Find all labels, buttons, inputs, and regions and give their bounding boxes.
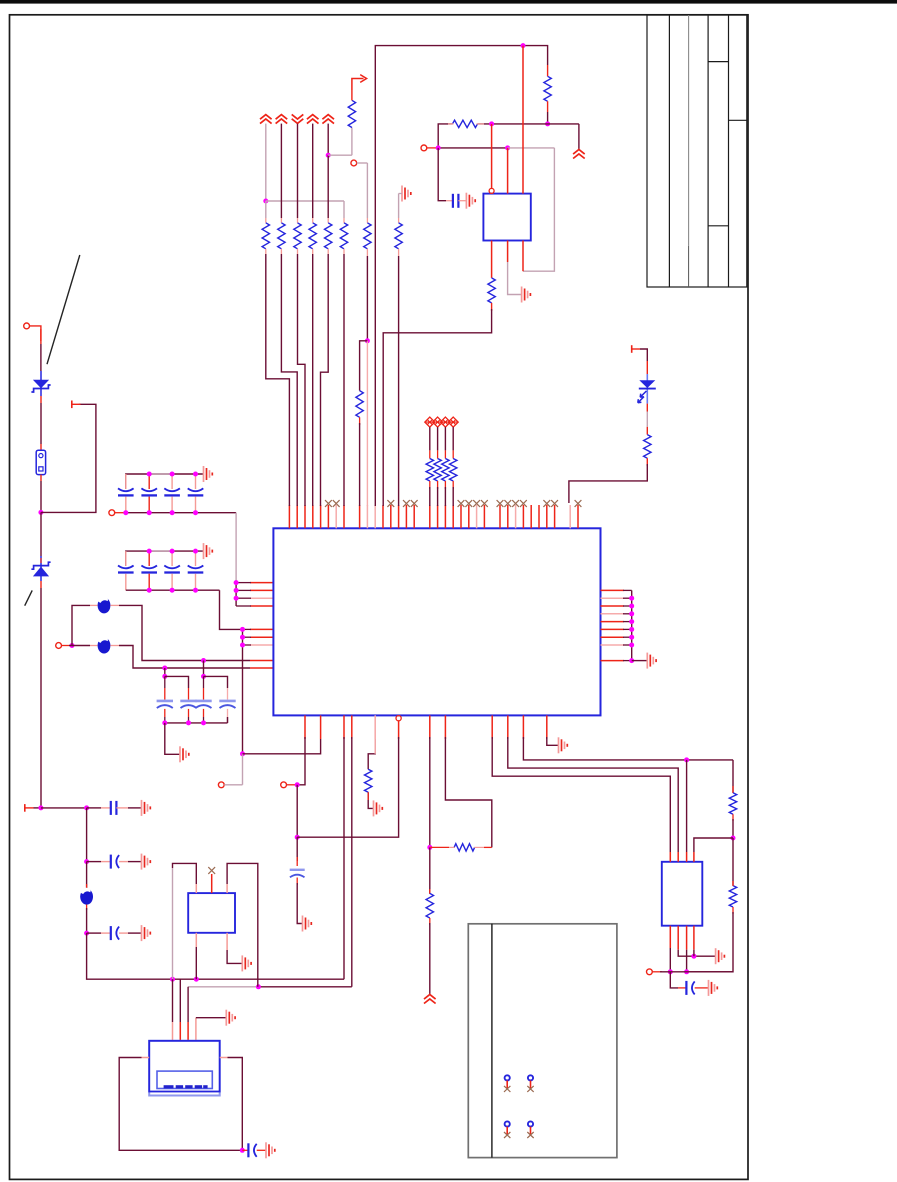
resistor R1 — [262, 223, 269, 249]
junction — [326, 153, 331, 158]
wire horizontal 986.8 — [258, 986, 351, 988]
wire rail long — [40, 588, 42, 808]
ground — [521, 287, 523, 303]
ground — [465, 193, 467, 209]
junction — [147, 510, 152, 515]
pin T1 — [71, 401, 73, 409]
capacitor C10 — [685, 981, 687, 995]
wire — [578, 124, 580, 150]
junction — [234, 580, 239, 585]
stub — [351, 90, 353, 100]
junction — [545, 121, 550, 126]
stub — [646, 361, 648, 374]
wire gray — [357, 162, 368, 164]
junction — [193, 588, 198, 593]
IC left pin — [250, 660, 273, 662]
resistor R13 — [644, 435, 651, 459]
power chevron 2 — [276, 115, 288, 124]
wire — [547, 112, 549, 124]
wire gray chevron1 — [265, 124, 267, 201]
wire stub — [40, 444, 42, 450]
top page edge bar — [0, 0, 897, 4]
cap stub — [164, 709, 166, 717]
no-connect X — [387, 500, 394, 507]
junction — [691, 954, 696, 959]
wire mid horizontal — [438, 124, 452, 148]
wire gray to IC pins A — [235, 513, 237, 583]
wire stub — [119, 932, 128, 934]
no-connect X — [465, 500, 472, 507]
U4 top pin — [669, 852, 671, 862]
no-connect X — [551, 500, 558, 507]
stub — [732, 907, 734, 914]
junction — [365, 338, 370, 343]
title block — [647, 15, 747, 287]
no-connect X — [473, 500, 480, 507]
junction — [84, 805, 89, 810]
resistor R10 — [356, 391, 363, 418]
wire loop — [119, 1058, 242, 1151]
LED D3 — [646, 374, 648, 404]
stub — [312, 218, 314, 223]
ground — [646, 653, 648, 669]
net flag diamond 3 — [440, 417, 450, 427]
wire to pin — [398, 256, 400, 506]
no-connect X — [208, 867, 215, 874]
capacitor C31 — [157, 700, 173, 703]
ferrite bead FB1 — [98, 597, 111, 613]
power chevron 4 — [307, 115, 319, 124]
junction — [505, 145, 510, 150]
resistor R20 — [426, 459, 433, 482]
IC U1 body — [273, 528, 600, 715]
stub — [296, 878, 298, 886]
junction — [263, 199, 268, 204]
capacitor bank 1 bus — [126, 474, 204, 489]
capacitor C5 — [110, 801, 112, 815]
wire stub — [40, 396, 42, 403]
stub — [452, 481, 454, 489]
U4 bottom pin 3 — [693, 926, 695, 950]
wire gray — [172, 868, 174, 979]
resistor R9 — [348, 100, 355, 127]
junction — [84, 859, 89, 864]
wire rail — [40, 481, 42, 512]
resistor R2 — [278, 223, 285, 249]
junction — [38, 805, 43, 810]
resistor R11 — [453, 120, 478, 127]
pin T2 — [24, 804, 26, 812]
wire port to rail — [30, 326, 41, 341]
port circle — [281, 782, 287, 788]
port circle — [351, 160, 357, 166]
junction — [240, 627, 245, 632]
resistor R14 — [488, 278, 495, 303]
stub — [265, 249, 267, 254]
wire IC pin k8 down — [351, 737, 353, 987]
junction — [629, 658, 634, 663]
wire — [640, 349, 647, 361]
power chevron — [424, 995, 436, 1004]
wire gray horizontal — [266, 200, 344, 202]
wire — [297, 737, 305, 785]
junction — [436, 145, 441, 150]
stub — [110, 604, 119, 606]
bank3 top bus seg1 — [165, 676, 189, 688]
junction — [123, 510, 128, 515]
stub — [646, 458, 648, 466]
ground — [225, 1010, 227, 1026]
wire chevron5 — [327, 124, 329, 156]
cap top stub — [171, 551, 173, 566]
cap bottom stub — [125, 574, 127, 591]
capacitor C24 — [188, 566, 204, 569]
wire R2 to pin — [281, 254, 297, 506]
no-connect X — [481, 500, 488, 507]
wire — [547, 737, 559, 745]
capacitor C12 — [141, 488, 157, 491]
cap top stub — [195, 474, 197, 489]
ferrite bead FB2 — [98, 638, 111, 654]
junction — [147, 588, 152, 593]
test pin symbol — [505, 1075, 510, 1080]
wire — [686, 760, 688, 852]
wire — [437, 427, 439, 450]
wire gray — [398, 194, 400, 219]
resistor R23 — [450, 459, 457, 482]
junction — [629, 635, 634, 640]
port circle — [218, 782, 224, 788]
annotation diagonal line — [47, 255, 80, 364]
stub — [90, 645, 98, 647]
no-connect X — [458, 500, 465, 507]
stub — [429, 918, 431, 925]
junction — [240, 643, 245, 648]
stub — [343, 218, 345, 223]
junction — [295, 835, 300, 840]
power chevron — [573, 150, 585, 159]
junction — [170, 510, 175, 515]
wire R6 to pin — [343, 254, 345, 506]
stub — [297, 249, 299, 254]
bank3 bottom bus — [165, 722, 228, 724]
U3 top pin 1 — [195, 884, 197, 893]
stub — [110, 645, 119, 647]
resistor R15 — [365, 769, 372, 792]
U3 bottom pin 2 — [226, 933, 228, 950]
junction — [38, 510, 43, 515]
ground — [203, 543, 205, 559]
cap stub — [227, 709, 229, 717]
capacitor C11 — [247, 1143, 249, 1157]
annotation slash — [25, 590, 33, 605]
U2 pin bubble — [489, 188, 494, 193]
wire pale to pin — [366, 341, 368, 506]
wire IC pin k7 down — [343, 737, 345, 979]
wire gray — [508, 147, 555, 149]
power chevron 5 — [322, 115, 334, 124]
no-connect X — [512, 500, 519, 507]
U4 bottom pin 4 — [686, 926, 688, 950]
junction — [629, 604, 634, 609]
wire — [523, 737, 733, 760]
wire gray — [343, 201, 345, 218]
junction — [193, 510, 198, 515]
pin T3 — [631, 345, 633, 353]
stub — [90, 604, 98, 606]
junction — [684, 757, 689, 762]
wire — [368, 739, 375, 769]
net flag diamond 1 — [425, 417, 435, 427]
junction — [731, 836, 736, 841]
wire to ground — [632, 660, 648, 662]
cap top stub — [195, 551, 197, 566]
capacitor C13 — [164, 488, 180, 491]
stub — [359, 417, 361, 425]
connector J1 body — [149, 1041, 220, 1096]
junction — [234, 588, 239, 593]
wire — [478, 123, 579, 125]
stub — [265, 218, 267, 223]
junction — [295, 782, 300, 787]
wire to cap — [670, 972, 678, 988]
U2 bottom pin 1 — [491, 241, 493, 278]
connector J1 tongue — [157, 1071, 212, 1088]
wire stub — [86, 905, 88, 911]
polarized cap C7 (bead) — [80, 889, 93, 905]
stub — [695, 987, 709, 989]
wire — [452, 427, 454, 450]
IC left pin — [250, 667, 273, 669]
wire gray bus segment — [149, 550, 172, 552]
junction — [194, 977, 199, 982]
cap bottom stub — [195, 497, 197, 513]
cap stub — [203, 709, 205, 717]
IC U1 top pins — [288, 505, 290, 528]
junction — [240, 635, 245, 640]
J1 right pin — [220, 1057, 228, 1059]
wire R3 to pin — [298, 254, 306, 506]
cap top stub — [148, 551, 150, 566]
wire — [72, 645, 90, 647]
wire — [366, 256, 368, 341]
resistor R5 — [325, 223, 332, 249]
stub — [257, 1149, 266, 1151]
wire to IC pin — [383, 309, 491, 506]
wire to pin — [359, 423, 361, 506]
wire stub — [40, 581, 42, 588]
ground — [141, 854, 143, 870]
capacitor C6 — [110, 855, 112, 869]
wire branch to R10 — [360, 341, 368, 391]
port circle — [647, 969, 653, 975]
no-connect X — [497, 500, 504, 507]
U4 bottom pin 2 — [677, 926, 679, 950]
junction — [629, 627, 634, 632]
wire bus B bottom to port — [242, 754, 244, 785]
wire net to IC pin — [119, 605, 250, 660]
resistor R3 — [294, 223, 301, 249]
stub — [484, 846, 492, 848]
wire rail — [40, 403, 42, 444]
junction — [629, 643, 634, 648]
wire — [86, 908, 88, 933]
IC U1 right pins — [601, 589, 625, 591]
junction — [193, 472, 198, 477]
port arrow (off-page right) — [352, 79, 364, 91]
ground — [141, 800, 143, 816]
stub — [343, 249, 345, 254]
wire to IC pin — [569, 464, 647, 503]
junction — [162, 666, 167, 671]
IC U4 body — [662, 862, 703, 926]
U2 bottom pin 3 — [522, 241, 524, 272]
no-connect X — [504, 500, 511, 507]
junction — [170, 588, 175, 593]
wire gray — [351, 128, 353, 156]
stub — [437, 481, 439, 489]
capacitor C9 — [290, 869, 305, 871]
wire — [492, 737, 670, 852]
IC U1 bottom pins — [304, 715, 306, 739]
junction — [147, 472, 152, 477]
wire P1 — [172, 979, 174, 1022]
power chevron 3 — [292, 114, 304, 123]
wire gray — [366, 163, 368, 218]
J1 left pin — [142, 1057, 150, 1059]
capacitor C8 — [110, 926, 112, 940]
resistor R16 — [426, 893, 433, 918]
stub — [280, 249, 282, 254]
ground — [708, 980, 710, 996]
wire rail — [732, 760, 734, 793]
bank3 top bus seg2 — [204, 676, 228, 688]
resistor R22 — [442, 459, 449, 482]
junction — [201, 674, 206, 679]
wire — [87, 861, 101, 863]
wire R5 to pin — [321, 254, 329, 506]
wire — [296, 785, 298, 837]
wire — [445, 737, 491, 847]
wire — [34, 807, 41, 809]
cap stub — [227, 688, 229, 700]
junction — [147, 549, 152, 554]
cap bottom stub — [195, 574, 197, 591]
stub — [280, 218, 282, 223]
resistor R17 — [454, 844, 474, 851]
junction — [162, 720, 167, 725]
junction — [234, 596, 239, 601]
wire stub — [40, 475, 42, 481]
junction — [170, 549, 175, 554]
wire — [227, 863, 258, 986]
junction — [240, 1148, 245, 1153]
cap bottom stub — [125, 497, 127, 513]
test pin symbol — [528, 1121, 533, 1126]
wire to ground — [678, 950, 715, 957]
test pin symbol — [528, 1075, 533, 1080]
cap stub — [203, 688, 205, 700]
U2 top pin 3 — [522, 46, 524, 194]
wire — [87, 932, 101, 934]
stub — [327, 218, 329, 223]
junction — [427, 845, 432, 850]
wire gray — [508, 262, 522, 295]
junction — [629, 619, 634, 624]
fuse F1 — [36, 450, 45, 474]
no-connect X — [325, 500, 332, 507]
ground — [241, 955, 243, 971]
stub — [547, 101, 549, 112]
junction — [193, 549, 198, 554]
junction — [84, 931, 89, 936]
port circle — [109, 510, 115, 516]
no-connect X — [575, 500, 582, 507]
wire gray — [646, 412, 648, 427]
wire to ground — [227, 950, 242, 963]
cap stub — [188, 709, 190, 717]
wire — [429, 427, 431, 450]
U3 bottom pin 1 — [195, 933, 197, 947]
resistor R6 — [340, 223, 347, 249]
capacitor C11 — [118, 488, 134, 491]
junction — [629, 611, 634, 616]
resistor R4 — [309, 223, 316, 249]
wire rail — [40, 512, 42, 556]
cap bottom stub — [148, 497, 150, 513]
resistor R7 — [364, 223, 371, 249]
net flag diamond 2 — [433, 417, 443, 427]
IC U3 body — [188, 893, 235, 933]
stub — [430, 846, 449, 848]
cap top stub — [171, 474, 173, 489]
junction — [186, 720, 191, 725]
junction — [489, 121, 494, 126]
wire to ground — [165, 723, 180, 754]
cap stub — [164, 688, 166, 700]
junction — [668, 969, 673, 974]
pale pin k11 — [374, 715, 376, 753]
wire — [732, 819, 734, 838]
wire P4 to ground — [195, 1018, 197, 1041]
capacitor C14 — [188, 488, 204, 491]
pin bus B vertical — [242, 629, 244, 753]
wire — [164, 668, 166, 676]
wire — [438, 148, 446, 201]
ground — [203, 466, 205, 482]
no-connect X — [520, 500, 527, 507]
wire gray bus segment — [149, 473, 172, 475]
capacitor C23 — [164, 566, 180, 569]
wire — [429, 847, 431, 893]
test pin symbol — [505, 1121, 510, 1126]
wire power rail to connector/IC — [87, 933, 344, 979]
no-connect X — [333, 500, 340, 507]
ground — [373, 800, 375, 816]
ground — [141, 925, 143, 941]
wire to IC pin bus B — [220, 590, 243, 629]
stub — [429, 481, 431, 489]
wire rail — [40, 344, 42, 371]
resistor R12 — [544, 76, 551, 101]
no-connect X — [403, 500, 410, 507]
stub — [646, 404, 648, 412]
wire — [41, 807, 87, 809]
wire — [660, 971, 733, 973]
wire — [429, 737, 431, 847]
right pin bus — [631, 590, 633, 660]
bottom bus bank2 — [126, 589, 220, 591]
